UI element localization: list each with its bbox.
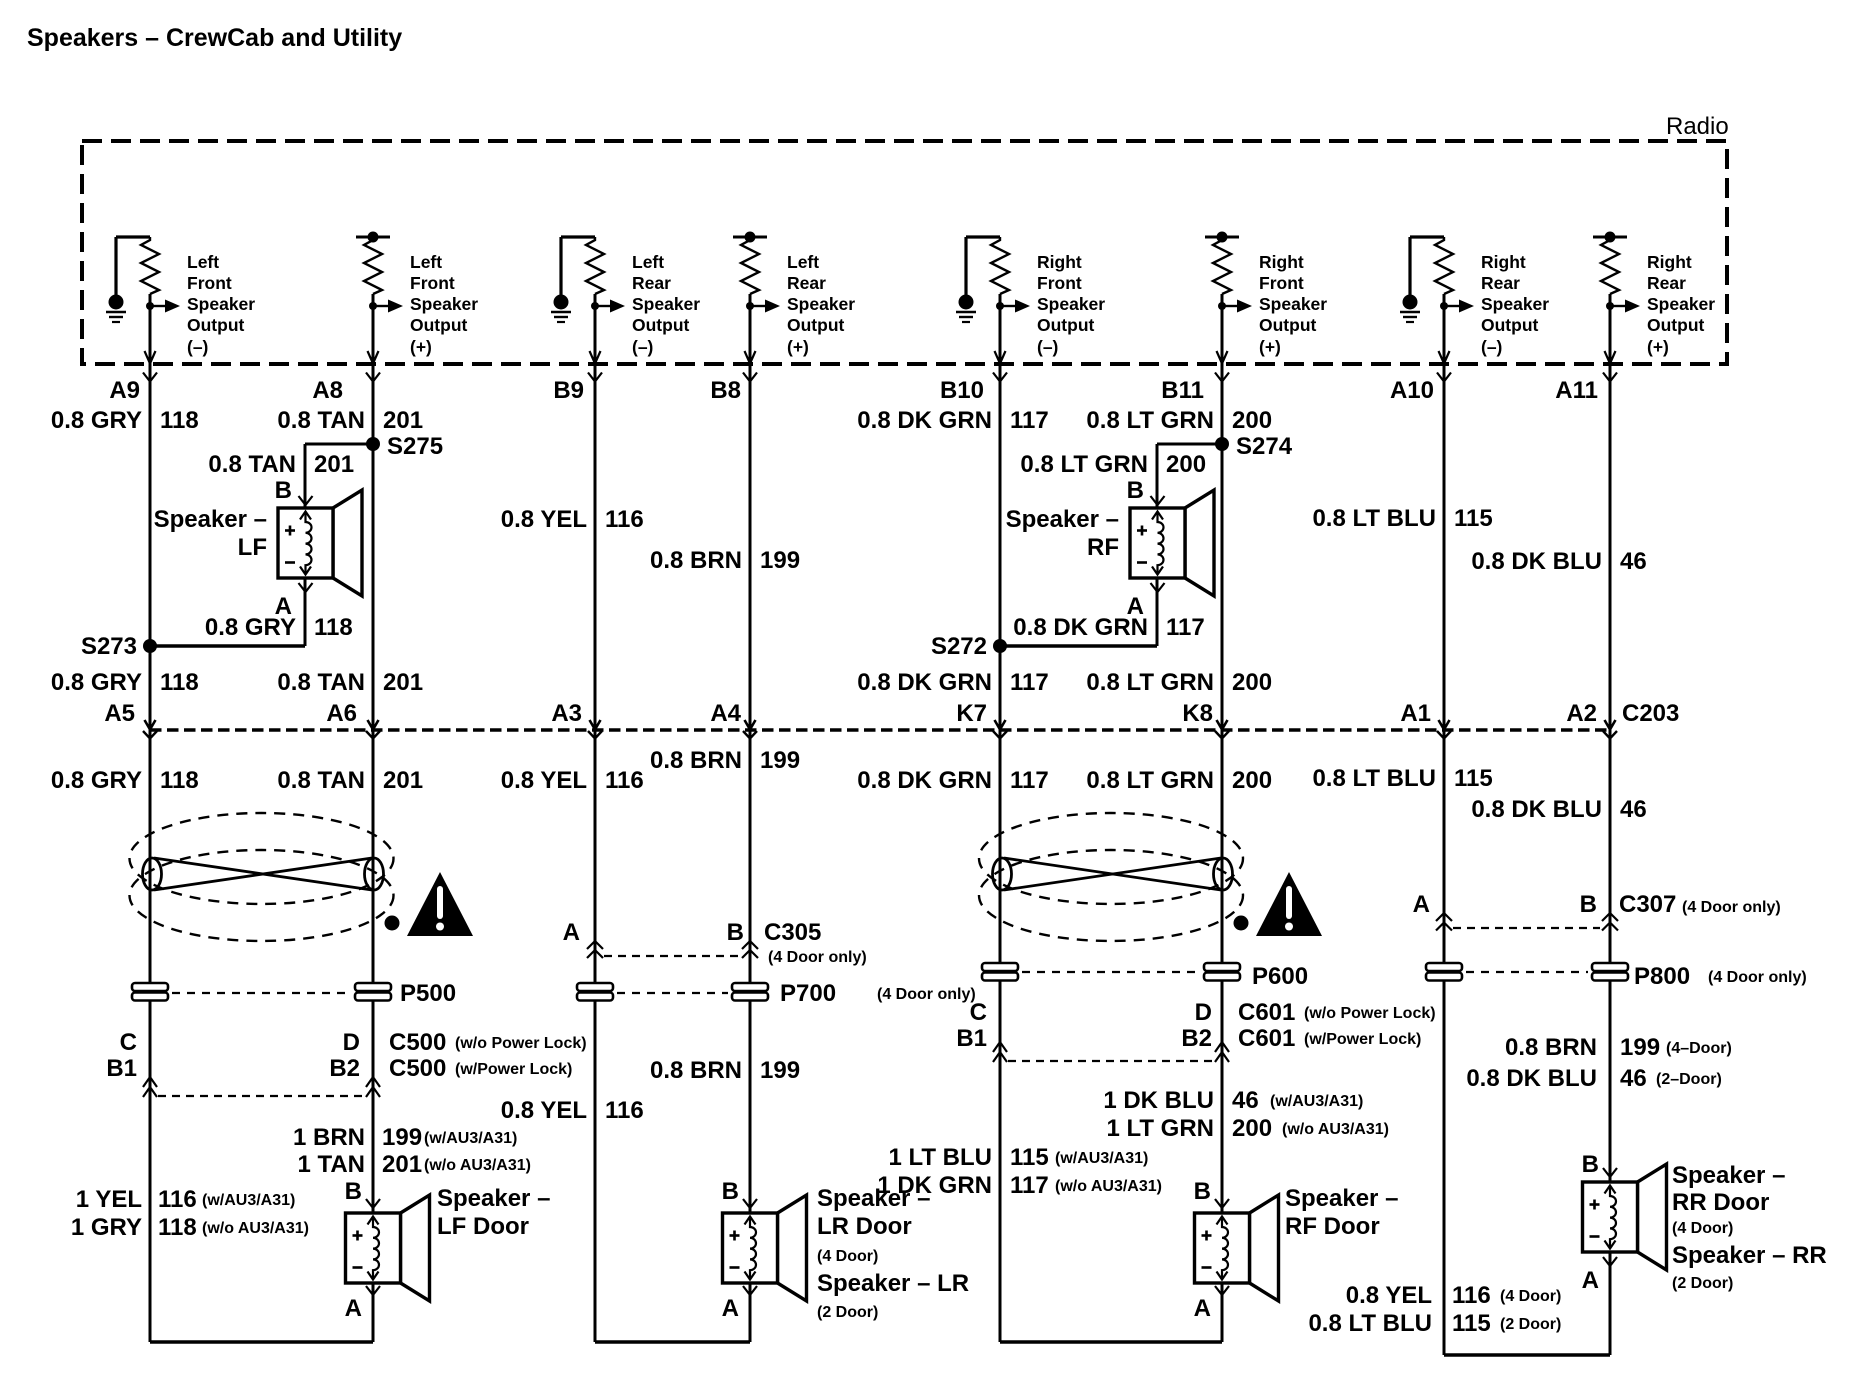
svg-text:C305: C305	[764, 919, 821, 946]
svg-text:116: 116	[605, 767, 644, 794]
svg-text:117: 117	[1166, 614, 1205, 641]
svg-text:0.8 BRN: 0.8 BRN	[650, 547, 742, 574]
svg-text:201: 201	[383, 407, 423, 434]
connector pin chevron A8	[366, 373, 380, 382]
svg-text:A: A	[722, 1295, 739, 1322]
svg-text:46: 46	[1232, 1087, 1259, 1114]
svg-text:K8: K8	[1182, 700, 1213, 727]
connector pin chevron B11	[1215, 373, 1229, 382]
svg-text:Front: Front	[187, 273, 232, 293]
svg-text:RF: RF	[1087, 534, 1119, 561]
svg-text:0.8 GRY: 0.8 GRY	[51, 669, 142, 696]
svg-text:(w/o AU3/A31): (w/o AU3/A31)	[1055, 1178, 1162, 1195]
svg-text:(4–Door): (4–Door)	[1666, 1040, 1732, 1057]
svg-text:C601: C601	[1238, 1025, 1295, 1052]
svg-text:115: 115	[1454, 505, 1493, 532]
ground	[1408, 237, 1411, 304]
svg-text:Left: Left	[187, 252, 219, 272]
svg-text:Speaker –: Speaker –	[1285, 1185, 1398, 1212]
svg-text:0.8 DK BLU: 0.8 DK BLU	[1466, 1065, 1597, 1092]
svg-text:C601: C601	[1238, 999, 1295, 1026]
svg-text:C500: C500	[389, 1029, 446, 1056]
warning triangle 2	[1256, 872, 1322, 936]
svg-text:Speakers – CrewCab and Utility: Speakers – CrewCab and Utility	[27, 24, 402, 52]
svg-text:115: 115	[1454, 765, 1493, 792]
svg-text:(w/o Power Lock): (w/o Power Lock)	[1304, 1005, 1436, 1022]
supply bar	[1593, 236, 1627, 239]
svg-text:46: 46	[1620, 548, 1647, 575]
connector pin chevron B9	[588, 373, 602, 382]
wire B10 vertical run	[999, 294, 1002, 1342]
supply bar	[733, 236, 767, 239]
svg-text:1 TAN: 1 TAN	[297, 1151, 365, 1178]
svg-text:118: 118	[160, 669, 199, 696]
svg-text:0.8 YEL: 0.8 YEL	[1346, 1282, 1432, 1309]
svg-text:B11: B11	[1161, 377, 1204, 404]
svg-text:B2: B2	[1181, 1025, 1212, 1052]
wire speaker RF pin A to splice S272	[1156, 578, 1159, 646]
svg-text:Speaker –: Speaker –	[817, 1185, 930, 1212]
svg-text:A11: A11	[1555, 377, 1598, 404]
wire B9 vertical run	[594, 294, 597, 1342]
svg-text:(–): (–)	[187, 337, 208, 357]
svg-text:Speaker –: Speaker –	[1672, 1162, 1785, 1189]
svg-text:B: B	[275, 477, 292, 504]
junction node	[1606, 302, 1614, 310]
svg-text:S275: S275	[387, 433, 443, 460]
svg-text:118: 118	[158, 1214, 197, 1241]
svg-text:A3: A3	[551, 700, 582, 727]
radio output circuit 6: Right Front Speaker Output plus	[1205, 232, 1327, 364]
svg-text:0.8 GRY: 0.8 GRY	[51, 767, 142, 794]
resistor R2	[364, 237, 382, 294]
svg-text:(w/AU3/A31): (w/AU3/A31)	[202, 1192, 295, 1209]
svg-text:Rear: Rear	[1647, 273, 1686, 293]
svg-text:A2: A2	[1566, 700, 1597, 727]
output arrow	[1222, 305, 1237, 307]
svg-text:B: B	[722, 1178, 739, 1205]
svg-text:0.8 LT BLU: 0.8 LT BLU	[1312, 765, 1436, 792]
svg-text:(2 Door): (2 Door)	[1672, 1275, 1733, 1292]
svg-text:117: 117	[1010, 1172, 1049, 1199]
connector pin chevron B10	[993, 373, 1007, 382]
svg-text:(w/Power Lock): (w/Power Lock)	[455, 1061, 572, 1078]
svg-text:P700: P700	[780, 980, 836, 1007]
pin exit arrow	[995, 351, 1006, 364]
svg-text:117: 117	[1010, 407, 1049, 434]
svg-text:1 YEL: 1 YEL	[76, 1186, 142, 1213]
ground	[964, 237, 967, 304]
svg-text:Right: Right	[1259, 252, 1304, 272]
svg-text:0.8 LT GRN: 0.8 LT GRN	[1086, 669, 1214, 696]
svg-text:115: 115	[1010, 1144, 1049, 1171]
output arrow	[595, 305, 610, 307]
svg-text:117: 117	[1010, 669, 1049, 696]
svg-text:B: B	[345, 1178, 362, 1205]
speaker RF	[1130, 490, 1214, 596]
svg-text:Output: Output	[1481, 315, 1539, 335]
svg-text:Radio: Radio	[1666, 113, 1729, 140]
svg-text:0.8 YEL: 0.8 YEL	[501, 506, 587, 533]
svg-text:(–): (–)	[632, 337, 653, 357]
svg-text:RF Door: RF Door	[1285, 1213, 1380, 1240]
svg-text:(2–Door): (2–Door)	[1656, 1071, 1722, 1088]
svg-text:(w/o AU3/A31): (w/o AU3/A31)	[1282, 1121, 1389, 1138]
wire B8 vertical run	[749, 294, 752, 1213]
grommet P500	[132, 983, 168, 991]
output arrow	[1444, 305, 1459, 307]
svg-text:118: 118	[314, 614, 353, 641]
svg-text:(+): (+)	[1647, 337, 1669, 357]
wire A11 vertical run	[1609, 294, 1612, 1182]
svg-text:0.8 TAN: 0.8 TAN	[277, 407, 365, 434]
connector C203 dashed line	[150, 728, 1610, 732]
svg-text:117: 117	[1010, 767, 1049, 794]
svg-text:B: B	[727, 919, 744, 946]
svg-text:A5: A5	[104, 700, 135, 727]
svg-text:0.8 YEL: 0.8 YEL	[501, 767, 587, 794]
wire speaker LF Door loop	[372, 1283, 375, 1342]
svg-text:(4 Door): (4 Door)	[1672, 1220, 1733, 1237]
splice S275	[305, 443, 373, 446]
svg-text:116: 116	[605, 506, 644, 533]
svg-text:(+): (+)	[1259, 337, 1281, 357]
connector pin chevron A10	[1437, 373, 1451, 382]
radio output circuit 5: Right Front Speaker Output minus	[956, 237, 1105, 364]
connector pin A1 at C203	[1439, 720, 1450, 730]
svg-text:0.8 DK BLU: 0.8 DK BLU	[1471, 548, 1602, 575]
output arrow	[150, 305, 165, 307]
supply bar	[356, 236, 390, 239]
svg-text:A: A	[1582, 1267, 1599, 1294]
junction node	[996, 302, 1004, 310]
svg-text:0.8 GRY: 0.8 GRY	[51, 407, 142, 434]
svg-text:0.8 BRN: 0.8 BRN	[650, 747, 742, 774]
svg-text:116: 116	[1452, 1282, 1491, 1309]
svg-text:200: 200	[1232, 407, 1272, 434]
svg-text:(4 Door): (4 Door)	[1500, 1288, 1561, 1305]
svg-text:(–): (–)	[1481, 337, 1502, 357]
connector C307	[1436, 913, 1452, 921]
svg-text:Left: Left	[787, 252, 819, 272]
svg-text:200: 200	[1166, 451, 1206, 478]
pin exit arrow	[368, 351, 379, 364]
speaker RF Door	[1195, 1195, 1279, 1301]
resistor R8	[1601, 237, 1619, 294]
svg-text:(4 Door): (4 Door)	[817, 1248, 878, 1265]
warning triangle 1	[407, 872, 473, 936]
svg-text:A6: A6	[326, 700, 357, 727]
svg-text:200: 200	[1232, 767, 1272, 794]
connector pin A4 at C203	[745, 720, 756, 730]
svg-text:Speaker – LR: Speaker – LR	[817, 1270, 969, 1297]
svg-text:116: 116	[605, 1097, 644, 1124]
svg-text:Speaker –: Speaker –	[437, 1185, 550, 1212]
svg-text:B10: B10	[940, 377, 984, 404]
connector pin A5 at C203	[145, 720, 156, 730]
svg-text:118: 118	[160, 407, 199, 434]
svg-text:Front: Front	[410, 273, 455, 293]
svg-text:(w/o AU3/A31): (w/o AU3/A31)	[424, 1157, 531, 1174]
svg-text:Speaker –: Speaker –	[154, 506, 267, 533]
svg-text:A4: A4	[710, 700, 741, 727]
svg-text:1 LT BLU: 1 LT BLU	[888, 1144, 992, 1171]
svg-text:(w/Power Lock): (w/Power Lock)	[1304, 1031, 1421, 1048]
svg-text:0.8 GRY: 0.8 GRY	[205, 614, 296, 641]
svg-text:0.8 LT BLU: 0.8 LT BLU	[1308, 1310, 1432, 1337]
svg-text:46: 46	[1620, 796, 1647, 823]
svg-text:B: B	[1580, 891, 1597, 918]
grommet P600	[982, 963, 1018, 971]
svg-text:115: 115	[1452, 1310, 1491, 1337]
wire speaker LF pin A to splice S273	[304, 578, 307, 646]
connector C305	[587, 941, 603, 949]
svg-text:Output: Output	[1647, 315, 1705, 335]
svg-text:Output: Output	[632, 315, 690, 335]
svg-text:Output: Output	[187, 315, 245, 335]
svg-text:(w/o Power Lock): (w/o Power Lock)	[455, 1035, 587, 1052]
svg-text:B8: B8	[710, 377, 741, 404]
svg-text:1 DK BLU: 1 DK BLU	[1103, 1087, 1214, 1114]
svg-text:C: C	[970, 999, 987, 1026]
svg-text:LR Door: LR Door	[817, 1213, 912, 1240]
wire A9 vertical run	[149, 294, 152, 1342]
svg-text:1 LT GRN: 1 LT GRN	[1106, 1115, 1214, 1142]
svg-text:0.8 BRN: 0.8 BRN	[650, 1057, 742, 1084]
svg-text:200: 200	[1232, 1115, 1272, 1142]
svg-text:Speaker: Speaker	[787, 294, 855, 314]
splice S273	[143, 639, 157, 653]
svg-text:0.8 DK BLU: 0.8 DK BLU	[1471, 796, 1602, 823]
svg-text:A8: A8	[312, 377, 343, 404]
svg-text:Right: Right	[1481, 252, 1526, 272]
connector pin chevron A11	[1603, 373, 1617, 382]
output arrow	[750, 305, 765, 307]
speaker LF	[278, 490, 362, 596]
svg-text:B: B	[1127, 477, 1144, 504]
svg-text:201: 201	[383, 767, 423, 794]
svg-text:Rear: Rear	[787, 273, 826, 293]
twisted pair wires 1	[154, 858, 372, 890]
svg-text:C307: C307	[1619, 891, 1676, 918]
svg-text:S274: S274	[1236, 433, 1293, 460]
junction node	[369, 302, 377, 310]
svg-text:118: 118	[160, 767, 199, 794]
supply bar	[1205, 236, 1239, 239]
svg-text:(–): (–)	[1037, 337, 1058, 357]
svg-text:0.8 DK GRN: 0.8 DK GRN	[1013, 614, 1148, 641]
svg-text:Left: Left	[410, 252, 442, 272]
pin exit arrow	[1217, 351, 1228, 364]
svg-text:199: 199	[760, 747, 800, 774]
svg-text:Output: Output	[410, 315, 468, 335]
junction node	[591, 302, 599, 310]
connector pin chevron B8	[743, 373, 757, 382]
svg-text:0.8 LT GRN: 0.8 LT GRN	[1086, 767, 1214, 794]
svg-text:B2: B2	[329, 1055, 360, 1082]
twisted pair shield 1 (dashed)	[130, 813, 394, 904]
radio output circuit 3: Left Rear Speaker Output minus	[551, 237, 700, 364]
pin A chevron speaker LF	[299, 583, 313, 592]
svg-text:200: 200	[1232, 669, 1272, 696]
svg-text:0.8 LT GRN: 0.8 LT GRN	[1020, 451, 1148, 478]
output arrow	[1610, 305, 1625, 307]
pin exit arrow	[145, 351, 156, 364]
svg-text:B9: B9	[553, 377, 584, 404]
svg-text:K7: K7	[956, 700, 987, 727]
svg-text:1 GRY: 1 GRY	[71, 1214, 142, 1241]
svg-text:LF Door: LF Door	[437, 1213, 529, 1240]
svg-text:P600: P600	[1252, 963, 1308, 990]
pin B chevron speaker RF	[1151, 496, 1165, 505]
output arrow	[1000, 305, 1015, 307]
svg-text:A1: A1	[1400, 700, 1431, 727]
svg-text:Speaker: Speaker	[1647, 294, 1715, 314]
node dot twisted pair 2	[1234, 916, 1249, 931]
pin A chevron speaker RF	[1151, 583, 1165, 592]
radio dashed box U1	[82, 141, 1727, 364]
resistor R3	[586, 237, 604, 294]
svg-text:(w/AU3/A31): (w/AU3/A31)	[424, 1130, 517, 1147]
radio output circuit 8: Right Rear Speaker Output plus	[1593, 232, 1715, 364]
svg-text:B: B	[1194, 1178, 1211, 1205]
svg-text:Output: Output	[787, 315, 845, 335]
wire speaker RR Door loop	[1609, 1252, 1612, 1355]
grommet P800	[1426, 963, 1462, 971]
svg-text:Output: Output	[1259, 315, 1317, 335]
connector pin K7 at C203	[995, 720, 1006, 730]
svg-text:Front: Front	[1259, 273, 1304, 293]
svg-text:(+): (+)	[787, 337, 809, 357]
radio output circuit 2: Left Front Speaker Output plus	[356, 232, 478, 364]
pin exit arrow	[590, 351, 601, 364]
splice S272	[993, 639, 1007, 653]
junction node	[1218, 302, 1226, 310]
svg-text:P800: P800	[1634, 963, 1690, 990]
resistor R5	[991, 237, 1009, 294]
radio output circuit 7: Right Rear Speaker Output minus	[1400, 237, 1549, 364]
svg-text:RR Door: RR Door	[1672, 1189, 1769, 1216]
svg-text:0.8 TAN: 0.8 TAN	[277, 767, 365, 794]
svg-text:Speaker – RR: Speaker – RR	[1672, 1242, 1827, 1269]
svg-text:(w/AU3/A31): (w/AU3/A31)	[1270, 1093, 1363, 1110]
wire A10 vertical run	[1443, 294, 1446, 1355]
svg-text:(2 Door): (2 Door)	[817, 1304, 878, 1321]
svg-text:Right: Right	[1037, 252, 1082, 272]
svg-text:Speaker: Speaker	[1481, 294, 1549, 314]
radio output circuit 4: Left Rear Speaker Output plus	[733, 232, 855, 364]
speaker RR Door	[1583, 1164, 1667, 1270]
svg-text:0.8 LT GRN: 0.8 LT GRN	[1086, 407, 1214, 434]
pin exit arrow	[1605, 351, 1616, 364]
svg-text:0.8 TAN: 0.8 TAN	[277, 669, 365, 696]
svg-text:0.8 TAN: 0.8 TAN	[208, 451, 296, 478]
svg-text:1 BRN: 1 BRN	[293, 1124, 365, 1151]
resistor R6	[1213, 237, 1231, 294]
svg-text:Front: Front	[1037, 273, 1082, 293]
svg-text:C203: C203	[1622, 700, 1679, 727]
svg-text:(2 Door): (2 Door)	[1500, 1316, 1561, 1333]
junction node	[746, 302, 754, 310]
svg-text:Rear: Rear	[632, 273, 671, 293]
svg-text:(4 Door only): (4 Door only)	[1682, 899, 1781, 916]
svg-text:0.8 LT BLU: 0.8 LT BLU	[1312, 505, 1436, 532]
resistor R7	[1435, 237, 1453, 294]
svg-text:D: D	[343, 1029, 360, 1056]
wire A8 vertical run	[372, 294, 375, 1213]
svg-text:0.8 DK GRN: 0.8 DK GRN	[857, 767, 992, 794]
svg-text:C500: C500	[389, 1055, 446, 1082]
wire speaker LR Door loop	[749, 1283, 752, 1342]
svg-text:(w/AU3/A31): (w/AU3/A31)	[1055, 1150, 1148, 1167]
svg-text:C: C	[120, 1029, 137, 1056]
svg-text:D: D	[1195, 999, 1212, 1026]
svg-text:0.8 DK GRN: 0.8 DK GRN	[857, 669, 992, 696]
svg-text:201: 201	[383, 669, 423, 696]
svg-text:Left: Left	[632, 252, 664, 272]
pin exit arrow	[745, 351, 756, 364]
svg-text:Speaker: Speaker	[410, 294, 478, 314]
svg-text:Right: Right	[1647, 252, 1692, 272]
svg-text:Output: Output	[1037, 315, 1095, 335]
svg-text:201: 201	[314, 451, 354, 478]
svg-text:B: B	[1582, 1151, 1599, 1178]
resistor R1	[141, 237, 159, 294]
radio output circuit 1: Left Front Speaker Output minus	[106, 237, 255, 364]
svg-text:A9: A9	[109, 377, 140, 404]
svg-text:(4 Door only): (4 Door only)	[1708, 969, 1807, 986]
svg-text:LF: LF	[238, 534, 267, 561]
svg-text:199: 199	[382, 1124, 422, 1151]
svg-text:(4 Door only): (4 Door only)	[768, 949, 867, 966]
junction node	[1440, 302, 1448, 310]
svg-text:Speaker: Speaker	[1259, 294, 1327, 314]
connector pin A6 at C203	[368, 720, 379, 730]
pin exit arrow	[1439, 351, 1450, 364]
svg-text:(w/o AU3/A31): (w/o AU3/A31)	[202, 1220, 309, 1237]
svg-text:A: A	[1413, 891, 1430, 918]
svg-text:199: 199	[760, 547, 800, 574]
svg-text:116: 116	[158, 1186, 197, 1213]
speaker LF Door	[346, 1195, 430, 1301]
junction node	[146, 302, 154, 310]
grommet P700	[577, 983, 613, 991]
output arrow	[373, 305, 388, 307]
resistor R4	[741, 237, 759, 294]
svg-text:A: A	[1194, 1295, 1211, 1322]
svg-text:Speaker: Speaker	[632, 294, 700, 314]
speaker LR Door	[723, 1195, 807, 1301]
svg-text:199: 199	[1620, 1034, 1660, 1061]
svg-text:S273: S273	[81, 633, 137, 660]
svg-text:A: A	[563, 919, 580, 946]
svg-text:(4 Door only): (4 Door only)	[877, 986, 976, 1003]
svg-text:B1: B1	[956, 1025, 987, 1052]
wire B11 vertical run	[1221, 294, 1224, 1213]
wire speaker RF Door loop	[1221, 1283, 1224, 1342]
svg-text:201: 201	[382, 1151, 422, 1178]
splice S274	[1157, 443, 1222, 446]
svg-text:P500: P500	[400, 980, 456, 1007]
svg-text:Speaker: Speaker	[1037, 294, 1105, 314]
connector pin K8 at C203	[1217, 720, 1228, 730]
svg-text:Rear: Rear	[1481, 273, 1520, 293]
ground	[114, 237, 117, 304]
svg-text:A10: A10	[1390, 377, 1434, 404]
pin B chevron speaker LF	[299, 496, 313, 505]
connector pin A3 at C203	[590, 720, 601, 730]
node dot twisted pair 1	[385, 916, 400, 931]
